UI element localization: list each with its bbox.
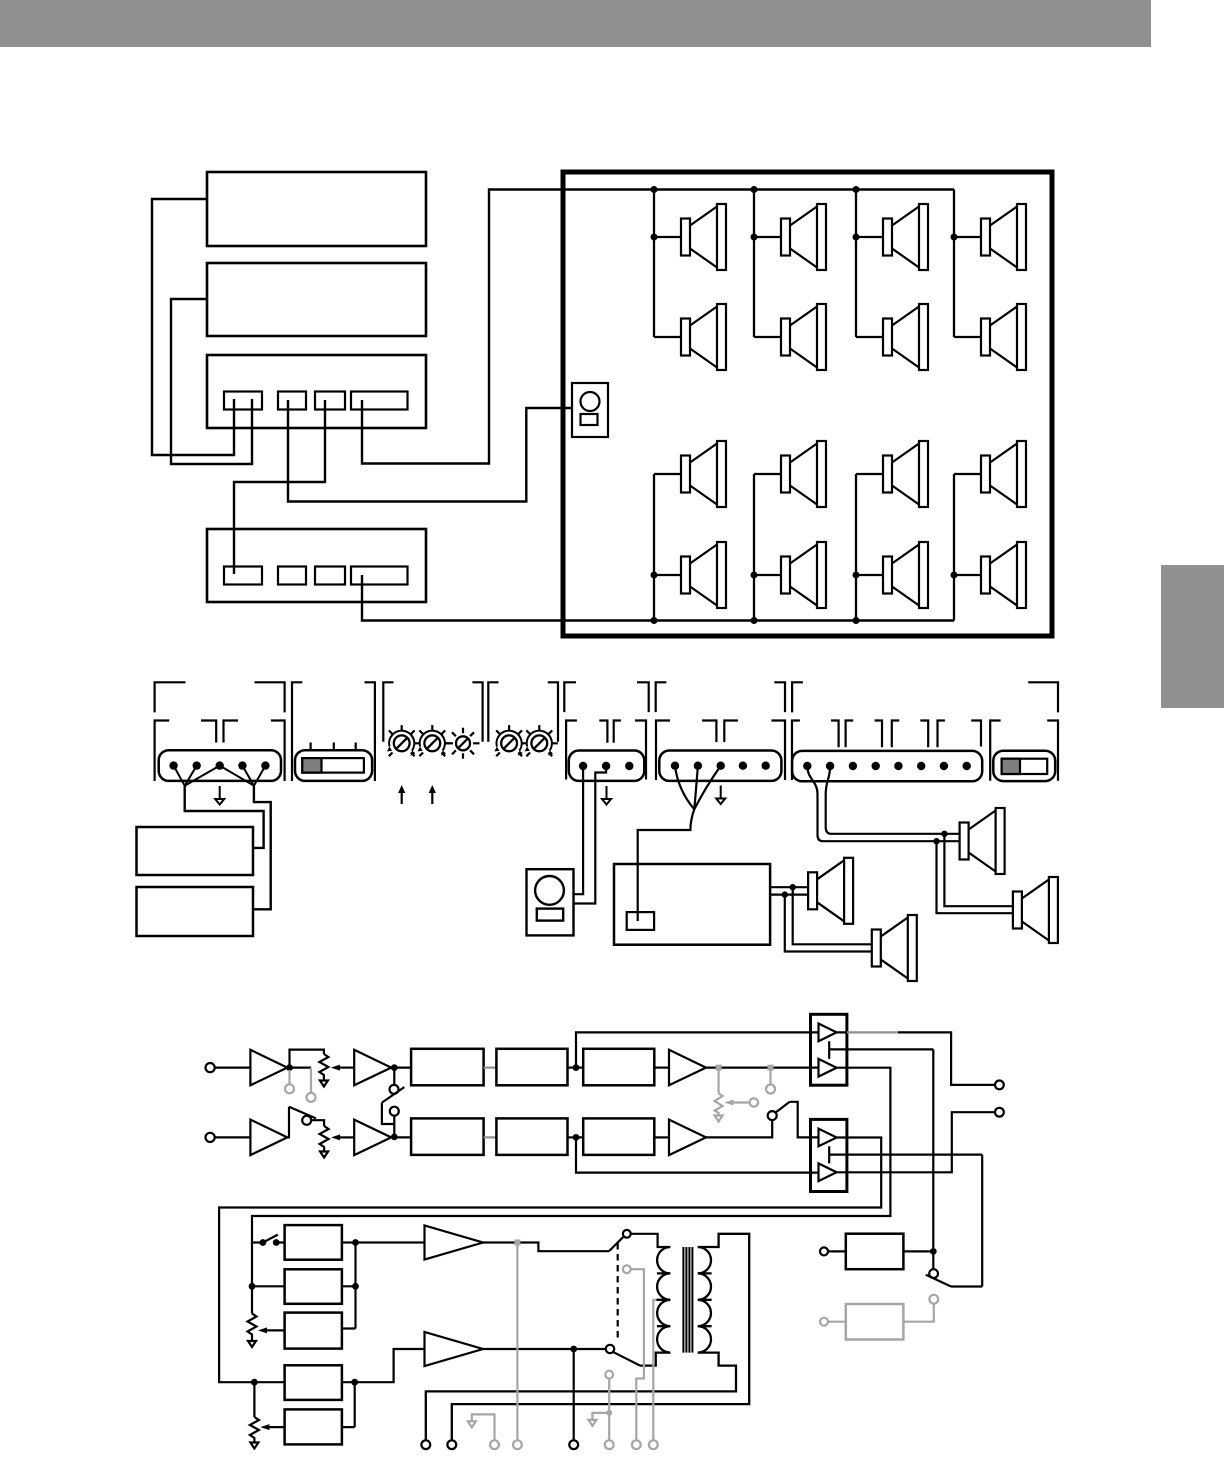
- label bracket row1 group6: [656, 682, 785, 712]
- wire strip2 dot1 to volume icon2: [574, 766, 584, 894]
- label bracket row1 group4: [488, 682, 558, 741]
- label bracket row1 group3: [383, 682, 482, 741]
- box4 port D: [351, 567, 408, 585]
- unit box 1 (tuner): [207, 172, 426, 246]
- label bracket row2 strip4 divider2: [875, 721, 900, 748]
- transformer core: [683, 1247, 692, 1353]
- wire branch to speaker SPb lower: [937, 841, 1013, 913]
- wire branch to speaker SPd upper: [793, 887, 872, 944]
- wire box2 to port A pin2: [171, 299, 252, 464]
- pot 3 resistor: [248, 1314, 257, 1338]
- block B4: [411, 1118, 484, 1155]
- gray link B4 to B5: [484, 1136, 497, 1138]
- pot1 bottom open arrow: [320, 1078, 328, 1087]
- column 2 riser wire bottom: [754, 474, 781, 621]
- wire contact to pot2: [311, 1120, 324, 1126]
- pot4 bottom open arrow: [250, 1441, 258, 1449]
- wire amp7 to primary switch: [483, 1243, 609, 1252]
- speaker r4c2: [781, 542, 826, 608]
- label bracket row2 strip1: [155, 721, 285, 782]
- down arrow below strip1: [215, 786, 224, 805]
- primary winding taps: [656, 1273, 670, 1326]
- wire amp5 to block B4: [391, 1136, 411, 1138]
- knob 5: [525, 725, 558, 756]
- wire terminal to monitor box: [828, 1250, 846, 1252]
- selector lever wire to U2 mid: [951, 1285, 982, 1287]
- slide switch panel 2: [993, 751, 1055, 781]
- speaker SPd: [872, 915, 917, 981]
- attenuator box 7: [614, 864, 770, 945]
- speaker switch contact row2: [768, 1111, 777, 1120]
- gray monitor box 2: [820, 1295, 938, 1340]
- pot2 bottom open arrow: [320, 1150, 328, 1158]
- wire box1 to port A pin1: [152, 199, 234, 455]
- wire strip1 right pair to box6: [253, 786, 271, 910]
- wire amp1 node stub: [290, 1066, 312, 1068]
- wire amp3 to U1 T2: [706, 1066, 819, 1068]
- secondary winding taps: [698, 1273, 712, 1326]
- line amp5: [354, 1120, 391, 1156]
- label bracket row2 strip5: [990, 721, 1058, 781]
- pot 3 wire from TB node: [251, 1286, 253, 1313]
- wire monitor box to selector: [903, 1250, 933, 1252]
- junction dots bottom rail: [651, 617, 658, 624]
- junction dots speaker row 4: [651, 572, 658, 579]
- line amp2: [354, 1050, 391, 1086]
- wire amp2 to block B1: [394, 1066, 411, 1068]
- selector lever: [926, 1275, 951, 1287]
- output terminal 1: [995, 1081, 1004, 1090]
- wire strip4 dot1 to speaker SPa: [807, 766, 959, 841]
- selector upper contact wire: [932, 1251, 934, 1269]
- secondary switch contact: [606, 1345, 614, 1353]
- U2 mid tap drop wire: [981, 1155, 983, 1287]
- stereo link switch lever wire: [382, 1103, 394, 1124]
- speaker r3c4: [981, 441, 1026, 507]
- U2 triangle T2: [819, 1163, 837, 1181]
- pot4 wiper arrow to TE: [260, 1424, 284, 1430]
- up arrow below knob2: [429, 785, 436, 804]
- wire port D to top rail of speaker box: [362, 190, 954, 464]
- transformer secondary winding: [698, 1247, 711, 1353]
- wire amp6 to speaker switch: [706, 1120, 772, 1137]
- box3 port A: [224, 392, 262, 410]
- label bracket row2 strip4 divider1: [831, 721, 853, 748]
- speaker r3c3: [883, 441, 928, 507]
- U2 triangle T1: [819, 1129, 837, 1147]
- stereo link switch lower contact: [390, 1107, 399, 1116]
- slide switch 2: [1002, 759, 1048, 774]
- header gray bar: [0, 0, 1151, 47]
- buffer amp1: [250, 1050, 287, 1086]
- gray alternate contact of secondary switch: [588, 1371, 613, 1449]
- wire strip3 to attenuator box7: [638, 809, 695, 921]
- label bracket row1 group5: [564, 682, 648, 712]
- primary switch contact: [623, 1230, 631, 1238]
- pot3 wiper arrow to TC: [258, 1327, 285, 1333]
- volume control icon 2: [527, 869, 574, 935]
- transformer primary winding: [657, 1247, 670, 1353]
- wire input L to buffer amp1: [215, 1066, 251, 1068]
- terminal strip 1 dots: [169, 761, 269, 769]
- wire B5 to B6: [568, 1136, 584, 1138]
- wire lever to transformer primary bottom: [640, 1353, 670, 1366]
- gray alternate contacts row1 left: [285, 1068, 316, 1102]
- terminal strip 2: [569, 751, 645, 781]
- label bracket row2 strip3: [656, 721, 785, 781]
- block B1: [411, 1049, 484, 1086]
- wire amp8 branch to terminal 5: [573, 1349, 575, 1440]
- knob 4: [494, 725, 527, 756]
- level block TA: [285, 1225, 342, 1260]
- box3 port B: [278, 392, 306, 410]
- speaker r3c1: [681, 441, 726, 507]
- speaker r4c4: [981, 542, 1026, 608]
- box3 port D: [351, 392, 408, 410]
- wire branch to speaker SPd lower: [785, 895, 872, 952]
- wire contact to transformer primary: [631, 1234, 671, 1247]
- wire amp8 to secondary switch: [483, 1348, 606, 1350]
- label bracket row1 group1: [155, 682, 285, 712]
- U1 triangle T1: [819, 1024, 837, 1042]
- U2 internal link and mid tap: [829, 1146, 982, 1163]
- wire branch to speaker SPb upper: [944, 834, 1013, 906]
- wire down to TB input: [252, 1243, 285, 1287]
- speaker SPb: [1013, 877, 1058, 943]
- pot3 bottom open arrow: [248, 1338, 256, 1348]
- primary switch lever: [609, 1237, 623, 1251]
- terminal strip 4 dots: [803, 762, 971, 770]
- up arrow below knob1: [398, 785, 405, 804]
- gray alternate contact row1 right: [766, 1065, 775, 1094]
- row2 switch riser: [287, 1107, 289, 1138]
- column 4 drop wire top: [954, 190, 981, 338]
- speaker r3c2: [781, 441, 826, 507]
- U2 T2 output to terminal 2: [837, 1112, 995, 1172]
- stereo link lower contact wire to row2: [393, 1116, 395, 1137]
- U2 T1 output long return to TD group: [219, 1138, 881, 1383]
- slide switch 1 tick marks: [311, 743, 356, 751]
- label bracket row2 strip4: [792, 721, 981, 781]
- block B2: [496, 1049, 567, 1086]
- secondary switch lever: [614, 1352, 641, 1365]
- junction dots speaker row 1: [651, 234, 658, 241]
- row2 switch contact: [302, 1116, 311, 1125]
- secondary bottom to terminal 1b: [426, 1353, 736, 1441]
- mute switch wire to TA: [252, 1241, 285, 1243]
- slide switch panel 1: [295, 750, 372, 781]
- block B3: [583, 1049, 654, 1086]
- speaker SPa: [960, 808, 1005, 874]
- speaker switch wire to U2 T1: [790, 1102, 819, 1138]
- power amp block U1: [811, 1014, 847, 1085]
- row2 switch lever: [289, 1107, 316, 1119]
- U1 T1 output gray segment: [847, 1031, 898, 1033]
- box4 port B: [278, 567, 306, 585]
- speaker output terminal B: [447, 1440, 456, 1449]
- U1 mid tap drop wire: [932, 1049, 934, 1248]
- junction dots strip4 wires: [933, 831, 947, 845]
- feedback wire row2 to U2 T2: [576, 1137, 819, 1172]
- stereo link switch upper contact: [390, 1085, 399, 1094]
- TA TB TC output bus: [342, 1243, 425, 1329]
- wire TD bus to amp8: [355, 1349, 425, 1382]
- pot2 wiper arrow: [331, 1134, 354, 1140]
- wire B6 to amp6: [654, 1136, 669, 1138]
- level block TD: [285, 1365, 342, 1400]
- terminal strip 2 dots: [579, 762, 634, 770]
- wire strip2 dot2 to volume icon2: [574, 766, 607, 904]
- speaker r1c3: [883, 204, 928, 270]
- box 5 (speaker cabinet A): [137, 827, 254, 875]
- label bracket row2 strip2 divider: [599, 721, 621, 743]
- box 6 (speaker cabinet B): [137, 887, 254, 936]
- U1 triangle T2: [819, 1059, 837, 1077]
- volume pot 1 resistor: [319, 1054, 328, 1078]
- label bracket row2 strip3 divider: [702, 721, 738, 743]
- right gray tab: [1161, 565, 1224, 708]
- speaker output terminal A: [421, 1440, 430, 1449]
- gray alternate contact of primary switch: [623, 1265, 644, 1449]
- wire down to TD input with left boundary: [253, 1382, 255, 1417]
- input terminal L: [206, 1063, 215, 1072]
- feedback wire row1 to U1 T1: [576, 1032, 819, 1067]
- gray pot after amp3: [715, 1065, 759, 1122]
- column 1 riser wire bottom: [654, 474, 681, 621]
- junction dots row chains: [286, 1064, 579, 1141]
- slide switch 1: [302, 758, 364, 773]
- label bracket row1 group7: [792, 682, 1058, 712]
- strip1 fan wires right: [220, 766, 266, 786]
- strip3 fan wires: [675, 766, 721, 810]
- terminal strip 3: [659, 751, 781, 781]
- switch link dashed line: [617, 1243, 619, 1341]
- line amp3: [669, 1050, 706, 1086]
- wire strip4 dot2 to speaker SPa: [826, 766, 960, 834]
- junction dots box7 wires: [782, 884, 796, 898]
- label bracket row2 strip1 divider: [201, 721, 238, 743]
- mute switch before TA: [263, 1235, 278, 1243]
- knob 1: [387, 725, 420, 756]
- level block TE: [285, 1409, 342, 1444]
- stereo link switch upper contact wire: [393, 1068, 395, 1085]
- column 2 drop wire top: [754, 190, 781, 338]
- gray wire terminal to amp7 node: [513, 1240, 522, 1450]
- gray link B1 to B2: [484, 1066, 497, 1068]
- junction dot monitor line: [930, 1248, 937, 1255]
- box 7 inner port: [627, 912, 654, 930]
- column 3 drop wire top: [856, 190, 883, 338]
- label bracket row2 strip4 divider3: [920, 721, 945, 748]
- speaker r1c2: [781, 204, 826, 270]
- U1 T1 output black segment: [837, 1032, 995, 1085]
- U1 T2 output long return to transformer switch: [252, 1068, 890, 1243]
- speaker r1c1: [681, 204, 726, 270]
- column 1 drop wire top: [654, 190, 681, 338]
- junction dots top rail: [651, 186, 658, 193]
- wire box7 to speaker SPc lower: [770, 893, 808, 895]
- box4 port C: [315, 567, 345, 585]
- pot 4 resistor: [250, 1417, 259, 1441]
- line amp6: [669, 1120, 706, 1156]
- secondary top to terminal 2b: [452, 1234, 749, 1441]
- speaker r2c4: [981, 304, 1026, 370]
- unit box 4 (amplifier 2): [207, 529, 426, 602]
- monitor input terminal: [820, 1247, 828, 1255]
- selector contact: [929, 1269, 938, 1278]
- strip1 fan wires left: [174, 766, 220, 786]
- speaker output terminal C: [569, 1440, 578, 1449]
- terminal strip 1: [159, 750, 281, 781]
- terminal strip 3 dots: [671, 762, 770, 770]
- input terminal R: [206, 1133, 215, 1142]
- speaker switch lever row2: [776, 1102, 790, 1113]
- label bracket row2 strip2: [566, 721, 646, 780]
- speaker r4c1: [681, 542, 726, 608]
- speaker r1c4: [981, 204, 1026, 270]
- pot1 wiper arrow: [331, 1065, 354, 1071]
- box4 port A: [224, 567, 262, 585]
- speaker r2c3: [883, 304, 928, 370]
- wire box4 port D to bottom rail of speaker box: [362, 575, 954, 621]
- U1 internal link and mid tap: [829, 1041, 933, 1059]
- unit box 3 (amplifier): [207, 355, 426, 428]
- wire box7 to speaker SPc upper: [770, 886, 808, 888]
- junction dots transformer section: [249, 1239, 577, 1386]
- wire input R to buffer amp4: [215, 1136, 251, 1138]
- unit box 2 (cd player): [207, 263, 426, 336]
- terminal strip 4: [792, 751, 982, 781]
- level block TC: [285, 1313, 342, 1349]
- knob 3: [447, 728, 480, 759]
- speaker matrix box: [563, 172, 1052, 636]
- wire B2 to B3: [568, 1066, 584, 1068]
- TD TE output bus: [342, 1382, 355, 1427]
- output terminal 2: [995, 1108, 1004, 1117]
- volume pot 2 resistor: [320, 1126, 329, 1150]
- speaker r2c2: [781, 304, 826, 370]
- volume control icon in speaker box: [572, 383, 608, 437]
- power amp block U2: [811, 1119, 847, 1191]
- label bracket row1 group2: [292, 682, 375, 781]
- box3 port C: [315, 392, 345, 410]
- wire amp1 to volume pot1 top: [290, 1050, 324, 1068]
- wire port C to box4 port A: [234, 400, 325, 574]
- level block TB: [285, 1269, 342, 1304]
- line amp8: [425, 1332, 484, 1366]
- buffer amp4: [250, 1120, 287, 1156]
- monitor box: [846, 1234, 904, 1270]
- gray primary center tap wire: [649, 1300, 658, 1449]
- stereo link switch lever: [382, 1087, 404, 1103]
- speaker SPc: [808, 858, 853, 924]
- wire strip1 left pair to box5: [185, 786, 264, 848]
- speaker r2c1: [681, 304, 726, 370]
- column 3 riser wire bottom: [856, 474, 883, 621]
- wire port B to speaker-control icon: [288, 400, 572, 502]
- speaker r4c3: [883, 542, 928, 608]
- wire B3 to amp3: [654, 1066, 669, 1068]
- line amp7: [425, 1226, 484, 1260]
- down arrow below strip2: [602, 786, 611, 805]
- block B5: [496, 1118, 567, 1155]
- block B6: [583, 1118, 654, 1155]
- down arrow below strip3: [716, 786, 725, 805]
- knob 2: [418, 725, 451, 756]
- column 4 riser wire bottom: [954, 474, 981, 621]
- gray terminal wire with arrow stub: [468, 1414, 499, 1449]
